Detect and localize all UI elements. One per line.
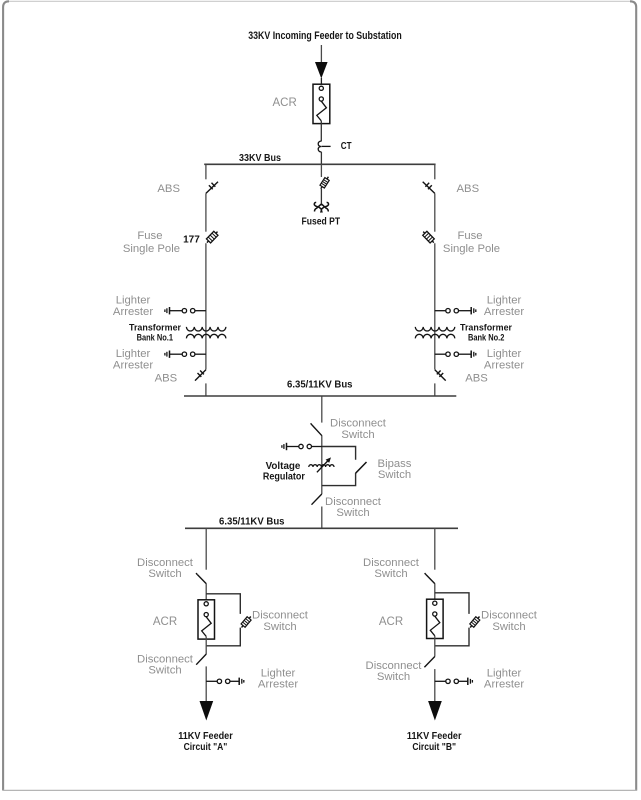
svg-text:Switch: Switch — [492, 621, 525, 633]
svg-text:Fuse: Fuse — [137, 230, 162, 242]
svg-text:Bank No.1: Bank No.1 — [137, 332, 173, 343]
svg-text:ABS: ABS — [465, 372, 488, 384]
svg-text:Switch: Switch — [378, 469, 411, 481]
svg-text:ABS: ABS — [457, 183, 480, 195]
svg-text:6.35/11KV Bus: 6.35/11KV Bus — [219, 516, 285, 527]
svg-text:Switch: Switch — [377, 671, 410, 683]
svg-text:177: 177 — [183, 235, 200, 246]
svg-text:Fuse: Fuse — [457, 230, 482, 242]
svg-text:ABS: ABS — [155, 372, 178, 384]
svg-text:Switch: Switch — [336, 507, 369, 519]
svg-text:Arrester: Arrester — [113, 306, 153, 318]
svg-text:Switch: Switch — [148, 568, 181, 580]
svg-text:11KV Feeder: 11KV Feeder — [178, 731, 233, 742]
svg-text:ACR: ACR — [273, 97, 297, 109]
svg-text:Bank No.2: Bank No.2 — [468, 332, 504, 343]
svg-text:Circuit "B": Circuit "B" — [412, 742, 456, 753]
svg-text:Fused PT: Fused PT — [302, 217, 341, 228]
svg-text:Single Pole: Single Pole — [123, 243, 180, 255]
svg-text:Switch: Switch — [148, 665, 181, 677]
svg-text:6.35/11KV Bus: 6.35/11KV Bus — [287, 380, 353, 391]
svg-text:Arrester: Arrester — [484, 306, 524, 318]
svg-text:Arrester: Arrester — [484, 359, 524, 371]
svg-text:Arrester: Arrester — [484, 678, 524, 690]
svg-text:33KV Bus: 33KV Bus — [239, 153, 281, 164]
svg-text:Arrester: Arrester — [258, 678, 298, 690]
svg-text:Arrester: Arrester — [113, 359, 153, 371]
svg-text:Single Pole: Single Pole — [443, 243, 500, 255]
svg-text:ABS: ABS — [157, 183, 180, 195]
svg-text:ACR: ACR — [379, 616, 403, 628]
svg-text:Regulator: Regulator — [263, 471, 305, 482]
svg-text:Switch: Switch — [341, 429, 374, 441]
svg-text:33KV Incoming Feeder to Substa: 33KV Incoming Feeder to Substation — [248, 30, 402, 42]
svg-text:11KV Feeder: 11KV Feeder — [407, 731, 462, 742]
svg-text:ACR: ACR — [153, 616, 177, 628]
svg-text:Switch: Switch — [374, 568, 407, 580]
svg-text:Switch: Switch — [263, 621, 296, 633]
svg-text:Circuit "A": Circuit "A" — [184, 742, 228, 753]
svg-text:CT: CT — [341, 141, 352, 152]
